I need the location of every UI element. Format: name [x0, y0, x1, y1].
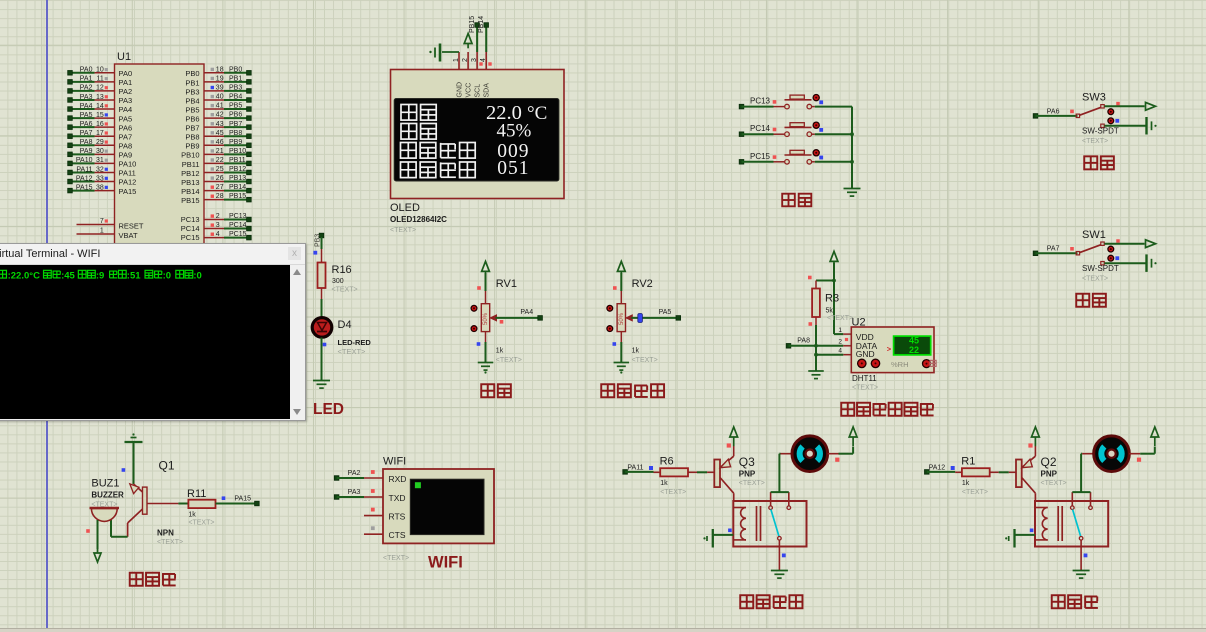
svg-text:TXD: TXD — [389, 493, 406, 503]
svg-text:PC13: PC13 — [229, 213, 247, 220]
svg-text:PB5: PB5 — [185, 105, 199, 114]
svg-text:PA10: PA10 — [76, 157, 93, 164]
svg-text:1: 1 — [838, 327, 842, 334]
svg-text:PA11: PA11 — [76, 166, 92, 173]
svg-text:PB11: PB11 — [182, 160, 200, 169]
svg-text:BUZ1: BUZ1 — [91, 478, 119, 490]
svg-text:13: 13 — [96, 94, 104, 101]
svg-text:2: 2 — [838, 339, 842, 346]
svg-text:PC14: PC14 — [750, 124, 771, 133]
svg-text:PB7: PB7 — [185, 124, 199, 133]
svg-text:12: 12 — [96, 85, 104, 92]
svg-text:3: 3 — [471, 58, 478, 62]
svg-text:D4: D4 — [338, 319, 352, 331]
svg-text:<TEXT>: <TEXT> — [852, 385, 878, 392]
svg-text:PC15: PC15 — [181, 233, 200, 242]
svg-text:PB6: PB6 — [185, 115, 199, 124]
svg-text:PA11: PA11 — [119, 169, 136, 178]
svg-text:R6: R6 — [660, 456, 674, 468]
svg-text:PNP: PNP — [739, 470, 756, 479]
svg-text:<TEXT>: <TEXT> — [188, 520, 214, 527]
svg-text:PC15: PC15 — [750, 152, 771, 161]
svg-text:PA15: PA15 — [76, 184, 93, 191]
svg-text:PA3: PA3 — [80, 94, 93, 101]
svg-text:1k: 1k — [962, 480, 970, 487]
svg-text:PA0: PA0 — [80, 67, 93, 74]
svg-text:PA15: PA15 — [119, 187, 137, 196]
svg-text:45: 45 — [909, 335, 919, 345]
svg-text:OLED: OLED — [390, 202, 420, 214]
svg-text:4: 4 — [480, 58, 487, 62]
svg-text:PB6: PB6 — [229, 112, 242, 119]
svg-text:RV1: RV1 — [496, 278, 517, 290]
svg-text:1: 1 — [453, 58, 460, 62]
svg-text:SW-SPDT: SW-SPDT — [1082, 264, 1119, 273]
svg-text:PB12: PB12 — [181, 169, 199, 178]
svg-text:PA4: PA4 — [520, 309, 533, 316]
svg-text:PB11: PB11 — [229, 157, 246, 164]
svg-text:46: 46 — [216, 139, 224, 146]
svg-text:40: 40 — [216, 94, 224, 101]
svg-text:PB9: PB9 — [185, 142, 199, 151]
svg-text:PB1: PB1 — [229, 75, 242, 82]
svg-text:Q3: Q3 — [739, 455, 755, 469]
svg-text:BUZZER: BUZZER — [91, 491, 124, 500]
svg-text:PB3: PB3 — [315, 234, 322, 247]
svg-text:45%: 45% — [497, 120, 532, 141]
svg-text:PA3: PA3 — [348, 489, 361, 496]
svg-text:4: 4 — [838, 348, 842, 355]
svg-text:PA11: PA11 — [627, 464, 643, 471]
svg-text:PB8: PB8 — [229, 130, 242, 137]
svg-text:PA6: PA6 — [119, 123, 133, 132]
svg-text:PB4: PB4 — [185, 96, 199, 105]
svg-text:<TEXT>: <TEXT> — [390, 227, 416, 234]
svg-text:32: 32 — [96, 166, 104, 173]
svg-text:PB0: PB0 — [229, 66, 242, 73]
svg-text::9: :9 — [96, 271, 104, 282]
svg-text:21: 21 — [216, 148, 224, 155]
svg-text:42: 42 — [216, 112, 224, 119]
svg-text:PC13: PC13 — [181, 215, 200, 224]
svg-text:3: 3 — [216, 222, 220, 229]
svg-text:SW3: SW3 — [1082, 91, 1106, 103]
svg-text:43: 43 — [216, 121, 224, 128]
svg-text:PA3: PA3 — [119, 96, 133, 105]
svg-text:PC13: PC13 — [750, 97, 771, 106]
svg-text:RXD: RXD — [389, 474, 407, 484]
svg-text:PA2: PA2 — [80, 85, 93, 92]
svg-text::51: :51 — [127, 271, 141, 282]
svg-text:>: > — [887, 345, 892, 354]
svg-text:7: 7 — [100, 218, 104, 225]
svg-text:41: 41 — [216, 103, 224, 110]
svg-text:R11: R11 — [187, 488, 206, 500]
svg-text:PB15: PB15 — [229, 193, 246, 200]
svg-text:PA9: PA9 — [119, 151, 133, 160]
svg-text:VBAT: VBAT — [119, 231, 138, 240]
svg-text:30: 30 — [96, 148, 104, 155]
svg-text::0: :0 — [163, 271, 171, 282]
svg-text:PA8: PA8 — [797, 337, 810, 344]
svg-text:1k: 1k — [632, 348, 640, 355]
svg-text:Q2: Q2 — [1041, 455, 1057, 469]
svg-text:1k: 1k — [660, 480, 668, 487]
svg-text:<TEXT>: <TEXT> — [91, 501, 117, 508]
svg-text:LED: LED — [313, 401, 344, 418]
svg-text:PA7: PA7 — [119, 132, 133, 141]
svg-text:PB7: PB7 — [229, 121, 242, 128]
svg-text:PA2: PA2 — [119, 87, 133, 96]
svg-text:PC15: PC15 — [229, 231, 247, 238]
svg-text:PA6: PA6 — [1047, 108, 1060, 115]
svg-text:29: 29 — [96, 139, 104, 146]
svg-text:PA1: PA1 — [119, 78, 133, 87]
svg-text:22: 22 — [216, 157, 224, 164]
svg-text:NPN: NPN — [157, 529, 174, 538]
svg-text:39: 39 — [216, 85, 224, 92]
svg-text:PA5: PA5 — [80, 112, 93, 119]
svg-text:50%: 50% — [483, 312, 489, 325]
svg-text:1k: 1k — [496, 348, 504, 355]
svg-text:CTS: CTS — [389, 530, 406, 540]
svg-text:1: 1 — [100, 228, 104, 235]
svg-text:PB13: PB13 — [229, 175, 246, 182]
svg-text:PB8: PB8 — [185, 133, 199, 142]
svg-text:PA12: PA12 — [76, 175, 93, 182]
svg-text:<TEXT>: <TEXT> — [827, 315, 853, 322]
svg-text:WIFI: WIFI — [383, 456, 406, 468]
svg-text:PNP: PNP — [1041, 470, 1058, 479]
svg-text:LED-RED: LED-RED — [338, 338, 372, 347]
svg-text:PB3: PB3 — [185, 87, 199, 96]
svg-text:PB14: PB14 — [478, 16, 485, 33]
svg-text:PA9: PA9 — [80, 148, 93, 155]
svg-text:4: 4 — [216, 231, 220, 238]
svg-text:RESET: RESET — [119, 222, 144, 231]
svg-text:18: 18 — [216, 66, 224, 73]
svg-text:PB13: PB13 — [181, 178, 199, 187]
svg-text:PB14: PB14 — [229, 184, 246, 191]
svg-text:PB15: PB15 — [181, 196, 199, 205]
svg-text:PA4: PA4 — [80, 103, 93, 110]
svg-text:SW-SPDT: SW-SPDT — [1082, 127, 1119, 136]
svg-text:PB9: PB9 — [229, 139, 242, 146]
svg-text:PB10: PB10 — [181, 151, 199, 160]
svg-text:PB1: PB1 — [185, 78, 199, 87]
svg-text:38: 38 — [96, 184, 104, 191]
svg-text:PA8: PA8 — [119, 141, 133, 150]
svg-text:<TEXT>: <TEXT> — [1041, 480, 1067, 487]
svg-text:50%: 50% — [619, 312, 625, 325]
svg-text:17: 17 — [96, 130, 104, 137]
svg-text:GND: GND — [457, 82, 464, 98]
svg-text:10: 10 — [96, 67, 104, 74]
svg-text:<TEXT>: <TEXT> — [660, 489, 686, 496]
svg-text:<TEXT>: <TEXT> — [332, 287, 358, 294]
svg-text:15: 15 — [96, 112, 104, 119]
svg-text:SDA: SDA — [484, 83, 491, 98]
svg-text:PB5: PB5 — [229, 103, 242, 110]
svg-text:R1: R1 — [961, 456, 975, 468]
svg-text:PA7: PA7 — [80, 130, 93, 137]
svg-text::22.0: :22.0 — [8, 271, 30, 282]
svg-text:25: 25 — [216, 166, 224, 173]
svg-text:PA12: PA12 — [119, 178, 137, 187]
svg-text:22: 22 — [909, 345, 919, 355]
svg-text:PA4: PA4 — [119, 105, 133, 114]
svg-text:45: 45 — [216, 130, 224, 137]
svg-text:U2: U2 — [852, 317, 866, 329]
svg-text:OLED12864I2C: OLED12864I2C — [390, 215, 447, 224]
svg-text:PA7: PA7 — [1047, 246, 1060, 253]
svg-text::0: :0 — [193, 271, 201, 282]
svg-text:2: 2 — [462, 58, 469, 62]
svg-text:PA10: PA10 — [119, 160, 137, 169]
svg-text:16: 16 — [96, 121, 104, 128]
svg-text:<TEXT>: <TEXT> — [496, 357, 522, 364]
svg-text:PA12: PA12 — [929, 464, 946, 471]
svg-text:U1: U1 — [117, 51, 131, 63]
svg-text:11: 11 — [97, 76, 104, 83]
svg-text:2: 2 — [216, 213, 220, 220]
svg-text:VCC: VCC — [466, 83, 473, 98]
svg-text:<TEXT>: <TEXT> — [1082, 138, 1108, 145]
svg-text:<TEXT>: <TEXT> — [338, 347, 367, 356]
svg-text:PA1: PA1 — [80, 76, 93, 83]
svg-text:°C: °C — [29, 271, 40, 282]
svg-text:<TEXT>: <TEXT> — [739, 480, 765, 487]
svg-text:PB0: PB0 — [185, 69, 199, 78]
svg-text:%RH: %RH — [891, 360, 909, 369]
svg-text:26: 26 — [216, 175, 224, 182]
svg-text:PA8: PA8 — [80, 139, 93, 146]
svg-text:RV2: RV2 — [632, 278, 653, 290]
svg-text:PB3: PB3 — [229, 85, 242, 92]
svg-text:PB4: PB4 — [229, 94, 242, 101]
svg-text:PA5: PA5 — [659, 309, 672, 316]
svg-text:1k: 1k — [188, 512, 196, 519]
svg-text:33: 33 — [96, 175, 104, 182]
svg-text:<TEXT>: <TEXT> — [383, 555, 409, 562]
svg-text:PB14: PB14 — [181, 187, 199, 196]
svg-text:<TEXT>: <TEXT> — [632, 357, 658, 364]
svg-text:31: 31 — [96, 157, 104, 164]
svg-text:PB10: PB10 — [229, 148, 246, 155]
svg-text:PC14: PC14 — [181, 224, 200, 233]
svg-text:14: 14 — [96, 103, 104, 110]
svg-text:<TEXT>: <TEXT> — [1082, 276, 1108, 283]
svg-text:SW1: SW1 — [1082, 229, 1106, 241]
svg-text:051: 051 — [497, 158, 529, 179]
svg-text:19: 19 — [216, 75, 224, 82]
svg-text:28: 28 — [216, 193, 224, 200]
svg-text:SCL: SCL — [475, 84, 482, 98]
svg-text:5k: 5k — [826, 308, 834, 315]
svg-text:PA0: PA0 — [119, 69, 133, 78]
svg-text:R3: R3 — [825, 293, 839, 305]
svg-text:R16: R16 — [332, 264, 352, 276]
svg-text:Q1: Q1 — [159, 459, 175, 473]
svg-text:<TEXT>: <TEXT> — [157, 539, 183, 546]
svg-text:PB12: PB12 — [229, 166, 246, 173]
svg-text:PC14: PC14 — [229, 222, 247, 229]
svg-text:300: 300 — [332, 278, 344, 285]
svg-text::45: :45 — [61, 271, 75, 282]
svg-text:RTS: RTS — [389, 511, 406, 521]
svg-text:GND: GND — [856, 349, 875, 359]
svg-text:PA15: PA15 — [234, 496, 251, 503]
svg-text:PA6: PA6 — [80, 121, 93, 128]
svg-text:PA5: PA5 — [119, 114, 133, 123]
svg-text:DHT11: DHT11 — [852, 374, 877, 383]
svg-text:PA2: PA2 — [348, 470, 361, 477]
svg-text:<TEXT>: <TEXT> — [962, 489, 988, 496]
svg-text:PB15: PB15 — [469, 16, 476, 33]
svg-text:27: 27 — [216, 184, 224, 191]
svg-text:WIFI: WIFI — [428, 554, 463, 572]
